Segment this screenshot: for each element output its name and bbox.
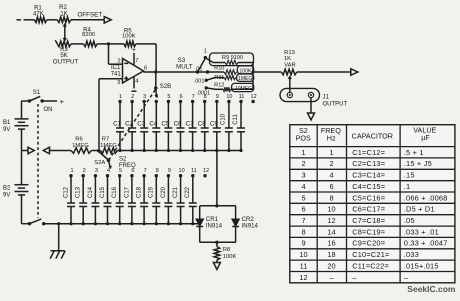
svg-text:12: 12 <box>327 216 335 225</box>
svg-text:100K: 100K <box>122 34 136 40</box>
svg-text:S2A: S2A <box>94 160 105 166</box>
svg-text:6: 6 <box>131 168 134 174</box>
svg-text:C3=C14=: C3=C14= <box>352 171 385 180</box>
svg-text:16: 16 <box>327 239 335 248</box>
svg-text:C6: C6 <box>174 120 182 127</box>
svg-text:2: 2 <box>83 168 86 174</box>
svg-text:18: 18 <box>327 250 335 259</box>
svg-text:11: 11 <box>300 261 308 270</box>
svg-text:R7: R7 <box>102 136 109 142</box>
svg-text:C5=C16=: C5=C16= <box>352 193 385 202</box>
svg-text:10: 10 <box>226 94 232 100</box>
svg-text:7: 7 <box>301 216 305 225</box>
svg-text:.066 + .0068: .066 + .0068 <box>404 193 448 202</box>
svg-text:12: 12 <box>251 94 257 100</box>
svg-text:R9 9100: R9 9100 <box>222 55 243 61</box>
svg-text:7: 7 <box>144 168 147 174</box>
svg-text:µF: µF <box>421 133 430 142</box>
svg-text:C10=C21=: C10=C21= <box>352 250 389 259</box>
svg-text:9V: 9V <box>3 193 10 199</box>
svg-text:C8: C8 <box>198 120 206 127</box>
svg-text:11: 11 <box>191 168 197 174</box>
svg-text:20: 20 <box>327 261 335 270</box>
svg-text:C3: C3 <box>137 120 145 127</box>
svg-text:3: 3 <box>301 171 305 180</box>
svg-text:10MEG: 10MEG <box>235 86 252 92</box>
svg-text:CAPACITOR: CAPACITOR <box>352 131 393 140</box>
svg-text:ON: ON <box>44 107 53 113</box>
svg-text:C6=C17=: C6=C17= <box>352 205 385 214</box>
svg-text:.15 + J5: .15 + J5 <box>404 159 432 168</box>
svg-text:.033 + .01: .033 + .01 <box>404 227 439 236</box>
svg-text:12: 12 <box>203 168 209 174</box>
svg-text:10: 10 <box>179 168 185 174</box>
svg-text:–: – <box>352 273 357 282</box>
svg-text:5: 5 <box>301 193 305 202</box>
svg-text:+: + <box>132 47 136 54</box>
svg-text:C11=C22=: C11=C22= <box>352 261 389 270</box>
svg-text:C8=C19=: C8=C19= <box>352 227 385 236</box>
svg-text:9V: 9V <box>3 127 10 133</box>
svg-text:C4: C4 <box>149 120 157 127</box>
svg-text:C16: C16 <box>112 186 118 198</box>
svg-text:R11: R11 <box>214 75 224 81</box>
svg-text:1MEG: 1MEG <box>72 143 89 149</box>
svg-text:47K: 47K <box>33 12 44 18</box>
svg-text:1MEG: 1MEG <box>100 143 117 149</box>
svg-text:0.33 + .0047: 0.33 + .0047 <box>404 239 448 248</box>
svg-text:12: 12 <box>299 273 307 282</box>
svg-text:VAR: VAR <box>284 62 296 68</box>
svg-text:J1: J1 <box>323 95 330 101</box>
svg-text:Hz: Hz <box>327 134 336 143</box>
svg-text:C14: C14 <box>88 186 94 198</box>
svg-text:3: 3 <box>143 94 146 100</box>
svg-text:–: – <box>404 273 409 282</box>
svg-text:C9: C9 <box>210 120 218 127</box>
svg-text:7: 7 <box>192 94 195 100</box>
svg-text:C18: C18 <box>137 186 143 198</box>
svg-text:1MEG: 1MEG <box>238 76 252 82</box>
svg-text:1: 1 <box>70 168 73 174</box>
svg-text:IN914: IN914 <box>206 222 223 229</box>
svg-text:C1=C12=: C1=C12= <box>352 148 385 157</box>
svg-text:8: 8 <box>301 227 305 236</box>
svg-text:9: 9 <box>216 94 219 100</box>
svg-text:R6: R6 <box>75 136 82 142</box>
svg-text:10: 10 <box>299 250 307 259</box>
svg-text:4: 4 <box>155 94 158 100</box>
svg-text:4: 4 <box>135 79 139 85</box>
svg-text:MULT: MULT <box>176 64 193 71</box>
svg-text:C11: C11 <box>233 114 239 125</box>
svg-text:1: 1 <box>329 148 333 157</box>
svg-text:2: 2 <box>117 58 120 64</box>
svg-text:R12: R12 <box>214 83 224 89</box>
svg-text:2: 2 <box>131 94 134 100</box>
svg-text:6: 6 <box>301 205 305 214</box>
svg-text:5: 5 <box>167 94 170 100</box>
svg-text:C13: C13 <box>76 186 82 198</box>
svg-text:3: 3 <box>117 80 120 86</box>
svg-text:6: 6 <box>144 65 147 71</box>
svg-text:9: 9 <box>168 168 171 174</box>
svg-text:14: 14 <box>327 227 335 236</box>
svg-text:C21: C21 <box>173 186 179 198</box>
svg-text:SeekIC.com: SeekIC.com <box>407 284 456 294</box>
svg-text:C7=C18=: C7=C18= <box>352 216 385 225</box>
svg-text:POS: POS <box>296 134 311 143</box>
svg-text:R2: R2 <box>59 5 67 11</box>
svg-text:C20: C20 <box>161 186 167 198</box>
svg-text:C4=C15=: C4=C15= <box>352 182 385 191</box>
svg-text:C10: C10 <box>221 113 227 125</box>
svg-text:S2: S2 <box>119 156 127 162</box>
svg-text:4: 4 <box>107 168 110 174</box>
svg-text:4: 4 <box>329 171 333 180</box>
svg-text:741: 741 <box>111 71 122 77</box>
svg-text:C9=C20=: C9=C20= <box>352 239 385 248</box>
svg-text:C1: C1 <box>113 120 121 127</box>
svg-text:.1: .1 <box>404 182 411 191</box>
svg-text:8200: 8200 <box>82 32 95 38</box>
svg-text:R13: R13 <box>284 50 295 56</box>
svg-text:S1: S1 <box>33 90 41 96</box>
svg-text:.15: .15 <box>404 171 415 180</box>
svg-text:.015+.015: .015+.015 <box>404 261 439 270</box>
svg-text:C12: C12 <box>63 186 69 198</box>
svg-text:8: 8 <box>156 168 159 174</box>
svg-text:OFFSET: OFFSET <box>77 12 102 19</box>
svg-text:.033: .033 <box>404 250 419 259</box>
svg-text:10: 10 <box>327 205 335 214</box>
svg-text:1K: 1K <box>284 56 291 62</box>
svg-text:+: + <box>60 97 65 106</box>
svg-text:R8: R8 <box>223 247 230 253</box>
svg-text:S2B: S2B <box>160 84 171 90</box>
svg-text:B2: B2 <box>3 186 11 192</box>
svg-text:8: 8 <box>204 94 207 100</box>
svg-text:IN914: IN914 <box>242 222 259 229</box>
svg-text:IC1: IC1 <box>111 65 121 71</box>
svg-text:C17: C17 <box>124 186 130 198</box>
svg-text:C19: C19 <box>149 186 155 198</box>
svg-text:C2: C2 <box>125 120 133 127</box>
svg-text:5: 5 <box>119 168 122 174</box>
svg-text:9: 9 <box>301 239 305 248</box>
svg-text:2: 2 <box>329 159 333 168</box>
svg-text:.5 + 1: .5 + 1 <box>404 148 424 157</box>
svg-text:.05: .05 <box>404 216 415 225</box>
svg-text:1: 1 <box>119 94 122 100</box>
svg-text:1: 1 <box>301 148 305 157</box>
svg-text:OUTPUT: OUTPUT <box>323 102 348 108</box>
svg-text:C22: C22 <box>185 186 191 198</box>
svg-text:7: 7 <box>135 58 138 64</box>
svg-text:1: 1 <box>204 48 207 54</box>
svg-text:B1: B1 <box>3 120 11 126</box>
svg-text:1K: 1K <box>60 12 67 18</box>
svg-text:C5: C5 <box>161 120 169 127</box>
svg-text:6: 6 <box>329 182 333 191</box>
svg-text:OUTPUT: OUTPUT <box>53 58 79 65</box>
svg-text:.D5 + D1: .D5 + D1 <box>404 205 435 214</box>
svg-text:C7: C7 <box>186 120 194 127</box>
svg-text:6: 6 <box>179 94 182 100</box>
svg-text:2: 2 <box>301 159 305 168</box>
svg-text:3: 3 <box>95 168 98 174</box>
svg-text:8: 8 <box>329 193 333 202</box>
svg-text:100K: 100K <box>223 254 237 260</box>
svg-text:R10: R10 <box>214 65 224 71</box>
svg-text:C2=C13=: C2=C13= <box>352 159 385 168</box>
svg-text:4: 4 <box>301 182 305 191</box>
svg-text:.01: .01 <box>195 67 203 73</box>
svg-text:11: 11 <box>239 94 245 100</box>
svg-text:R3: R3 <box>60 47 68 53</box>
svg-text:C15: C15 <box>100 186 106 198</box>
svg-text:.001: .001 <box>194 78 205 84</box>
svg-text:R1: R1 <box>34 6 42 12</box>
